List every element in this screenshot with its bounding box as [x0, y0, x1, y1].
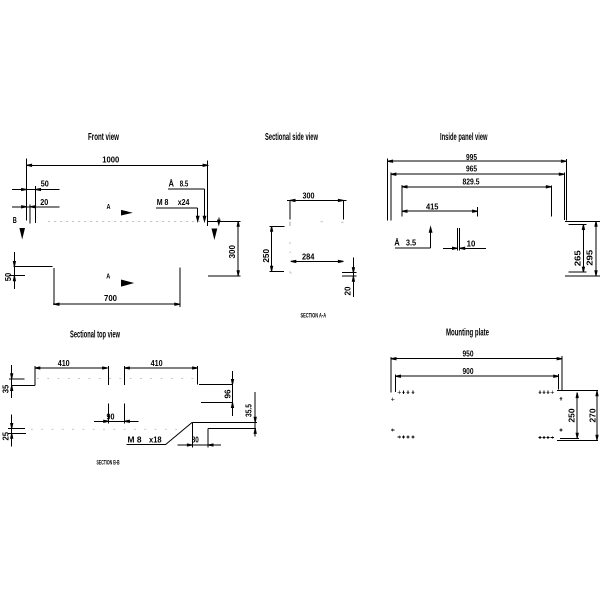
mounting plate: dim 900	[396, 375, 559, 377]
mounting plate: dim 270	[596, 391, 598, 440]
top view: left edge	[11, 385, 35, 387]
svg-text:950: 950	[463, 348, 474, 358]
title: Inside panel view	[440, 132, 488, 143]
svg-text:35: 35	[1, 385, 11, 394]
inside panel: callout dia 3.5	[394, 237, 416, 247]
inside panel: dim 965	[391, 173, 564, 175]
front view: tick arrow on top edge	[218, 218, 220, 222]
side view: right flange edges	[342, 272, 357, 274]
front view: section arrow B right	[212, 229, 218, 241]
svg-text:SECTION B-B: SECTION B-B	[97, 459, 120, 466]
svg-text:80: 80	[192, 434, 199, 444]
svg-text:Front view: Front view	[88, 132, 120, 143]
front view: text 300 rotated	[227, 245, 237, 259]
svg-text:965: 965	[466, 163, 477, 173]
svg-text:A: A	[106, 274, 110, 281]
side view: dim 250	[271, 226, 273, 271]
front view: bottom ext right	[208, 275, 241, 277]
mounting plate: bottom edges	[560, 437, 579, 439]
svg-text:8.5: 8.5	[180, 178, 189, 188]
svg-text:SECTION A-A: SECTION A-A	[301, 313, 327, 320]
svg-text:x24: x24	[178, 197, 190, 207]
label: SECTION B-B	[97, 459, 120, 466]
mounting plate: hole marks left singles	[391, 398, 394, 432]
mounting plate: hole marks bottom-right row	[538, 436, 554, 439]
top view: bottom edges	[192, 421, 256, 423]
top view: callout M 8 x18	[128, 435, 162, 445]
top view: dim 90	[108, 403, 110, 423]
front view: section arrow B left	[13, 216, 17, 225]
svg-text:415: 415	[426, 202, 439, 212]
svg-text:Å: Å	[394, 237, 400, 247]
svg-text:50: 50	[3, 273, 13, 282]
top view: dim 96	[232, 371, 234, 416]
top view: dim 410 left	[35, 367, 108, 369]
svg-text:A: A	[107, 204, 111, 211]
svg-text:96: 96	[222, 389, 232, 398]
inside panel: right corner verticals	[565, 159, 567, 221]
svg-text:20: 20	[40, 197, 48, 207]
top view: dim 35 left	[11, 365, 13, 398]
front view: text 50 rotated	[3, 273, 13, 282]
svg-text:50: 50	[41, 179, 49, 189]
front view: section arrow A upper	[107, 204, 111, 211]
inside panel: dim 829.5	[402, 186, 551, 188]
mounting plate: dim 250	[576, 393, 578, 439]
top view: dim 80	[191, 422, 193, 447]
inside panel: left corner verticals	[387, 158, 389, 220]
front view: hidden panel line	[48, 220, 200, 222]
side view: dim 20	[352, 258, 354, 298]
top view: right edge	[199, 384, 233, 386]
svg-text:270: 270	[587, 408, 597, 422]
svg-text:M 8: M 8	[128, 435, 142, 445]
mounting plate: right top edge	[557, 390, 598, 392]
svg-text:35.5: 35.5	[243, 404, 253, 417]
svg-text:B: B	[13, 216, 17, 225]
front view: notch verticals	[53, 268, 55, 305]
svg-text:300: 300	[303, 191, 315, 201]
side view: dim 300	[287, 199, 346, 201]
top view: dim 25 left	[11, 415, 13, 447]
svg-text:Inside panel view: Inside panel view	[440, 132, 488, 143]
mounting plate: hole marks top-left row	[398, 391, 415, 394]
top view: dim 410 right	[124, 367, 197, 369]
svg-text:295: 295	[584, 250, 594, 266]
mounting plate: hole marks top-right row	[538, 391, 554, 394]
front view: callout M 8 x24	[157, 197, 190, 207]
svg-text:25: 25	[1, 432, 11, 441]
inside panel: dim 10 clip	[457, 228, 459, 251]
svg-text:265: 265	[572, 250, 582, 266]
front view: dim 20	[12, 206, 60, 208]
svg-text:250: 250	[261, 249, 271, 263]
top view: hidden line lower	[31, 428, 178, 430]
front view: dim 50 vertical left	[13, 252, 15, 289]
mounting plate: corner verticals	[390, 357, 392, 392]
svg-text:1000: 1000	[102, 155, 119, 165]
svg-text:20: 20	[343, 286, 353, 295]
inside panel: dim 995	[388, 160, 567, 162]
inside panel: right edge profile	[565, 220, 600, 222]
side view: hidden edge specks	[289, 222, 291, 227]
front view: callout dia 8.5	[168, 178, 188, 188]
svg-text:700: 700	[104, 293, 117, 303]
svg-text:410: 410	[151, 358, 163, 368]
svg-text:10: 10	[467, 238, 476, 248]
front view: dim 50	[12, 189, 60, 191]
mounting plate: dim 950	[391, 358, 562, 360]
inside panel: dim 415	[402, 210, 478, 212]
svg-text:900: 900	[463, 366, 474, 376]
mounting plate: hole marks bottom-left row	[398, 435, 415, 438]
inside panel: dim 295	[595, 222, 597, 275]
front view: panel top edge right	[208, 220, 241, 222]
svg-text:Sectional side view: Sectional side view	[265, 132, 319, 143]
svg-text:M 8: M 8	[157, 197, 169, 207]
title: Mounting plate	[446, 328, 489, 339]
svg-text:829.5: 829.5	[463, 177, 480, 187]
svg-text:995: 995	[466, 152, 477, 162]
title: Sectional side view	[265, 132, 319, 143]
front view: bottom edge left	[14, 266, 53, 268]
svg-text:x18: x18	[149, 435, 162, 445]
svg-text:Mounting plate: Mounting plate	[446, 328, 489, 339]
svg-text:90: 90	[107, 412, 115, 422]
mounting plate: hole marks right singles	[559, 397, 562, 432]
top view: edge verticals	[34, 366, 36, 385]
top view: dim 35.5	[254, 392, 256, 436]
front view: dim 700	[53, 303, 179, 305]
svg-text:300: 300	[227, 245, 237, 259]
svg-text:250: 250	[566, 408, 576, 422]
top view: hidden line upper	[37, 378, 196, 380]
svg-text:Å: Å	[168, 178, 174, 188]
front view: section arrow A lower	[106, 274, 110, 281]
svg-text:Sectional top view: Sectional top view	[70, 330, 121, 341]
side view: dim 284	[291, 260, 344, 262]
front view: dim 300 right	[237, 222, 239, 276]
svg-text:410: 410	[58, 358, 70, 368]
front view: dim 1000	[27, 164, 209, 166]
inside panel: dim 265	[582, 225, 584, 272]
svg-text:284: 284	[302, 251, 315, 261]
label: SECTION A-A	[301, 313, 327, 320]
title: Sectional top view	[70, 330, 121, 341]
title: Front view	[88, 132, 120, 143]
svg-text:3.5: 3.5	[406, 237, 416, 247]
